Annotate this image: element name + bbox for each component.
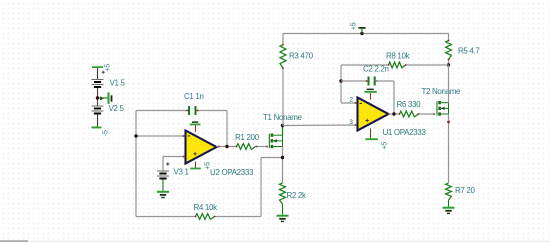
svg-text:+5: +5 [351, 22, 358, 30]
svg-text:V2 5: V2 5 [109, 104, 125, 113]
svg-text:R5 4.7: R5 4.7 [458, 47, 480, 56]
svg-text:C2 2.2n: C2 2.2n [363, 65, 389, 74]
svg-text:R6 330: R6 330 [397, 100, 422, 109]
svg-text:U2 OPA2333: U2 OPA2333 [210, 168, 254, 177]
svg-text:R3 470: R3 470 [289, 52, 314, 61]
svg-text:U1 OPA2333: U1 OPA2333 [383, 128, 427, 137]
svg-text:R1 200: R1 200 [235, 133, 260, 142]
svg-text:R4 10k: R4 10k [194, 203, 219, 212]
svg-text:R7 20: R7 20 [455, 186, 475, 195]
svg-text:R2 2k: R2 2k [287, 191, 307, 200]
svg-text:-5: -5 [103, 130, 110, 136]
svg-text:R8 10k: R8 10k [386, 52, 411, 61]
svg-text:V1 5: V1 5 [110, 79, 126, 88]
svg-text:T2 Noname: T2 Noname [422, 87, 462, 96]
svg-text:C1 1n: C1 1n [184, 92, 204, 101]
svg-text:V3 1: V3 1 [174, 168, 190, 177]
svg-text:+5: +5 [382, 142, 389, 150]
svg-text:+5: +5 [105, 64, 112, 72]
